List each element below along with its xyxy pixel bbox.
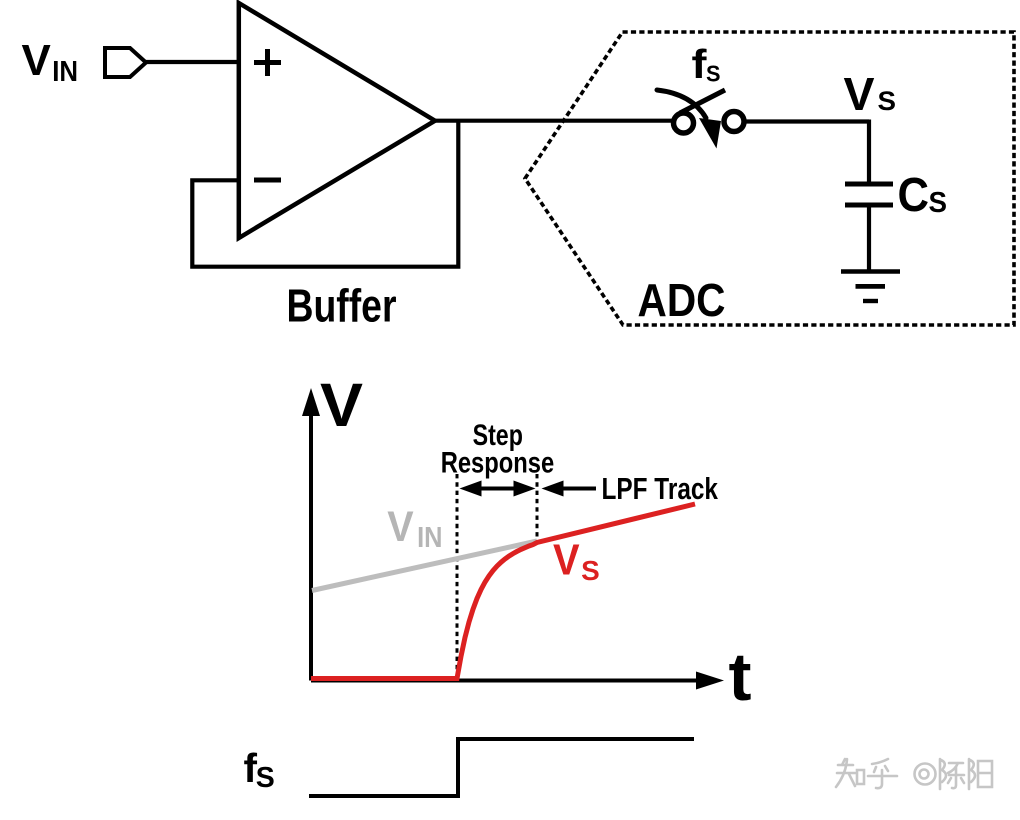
svg-text:IN: IN (52, 56, 78, 88)
svg-text:S: S (256, 762, 275, 794)
svg-text:V: V (320, 371, 363, 439)
svg-text:V: V (22, 36, 52, 85)
svg-text:ADC: ADC (638, 274, 726, 326)
svg-text:Buffer: Buffer (287, 280, 397, 332)
svg-text:f: f (692, 41, 708, 87)
svg-text:Response: Response (441, 446, 555, 479)
svg-text:S: S (706, 61, 721, 87)
svg-text:V: V (844, 68, 875, 120)
svg-text:S: S (581, 555, 600, 586)
svg-text:S: S (878, 86, 897, 116)
svg-text:LPF Track: LPF Track (602, 472, 719, 506)
svg-text:IN: IN (417, 522, 442, 554)
svg-text:V: V (553, 535, 580, 584)
svg-text:t: t (729, 639, 752, 715)
svg-text:S: S (929, 187, 948, 219)
svg-text:V: V (387, 503, 414, 551)
svg-text:C: C (898, 169, 930, 222)
